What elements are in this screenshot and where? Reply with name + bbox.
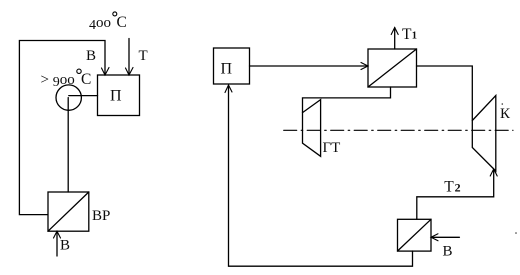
svg-text:> 9oo: > 9oo [41, 72, 75, 90]
heat exchanger box HX1 [368, 49, 417, 87]
svg-text:2: 2 [455, 181, 461, 195]
svg-text:В: В [86, 48, 96, 64]
svg-text:ВР: ВР [92, 208, 110, 224]
arrowhead into compressor bottom [490, 169, 497, 176]
wire P to heat exchanger T1 [250, 65, 367, 67]
wire HX2 top to compressor intake [417, 171, 494, 220]
wire T feed into preheater top [128, 39, 130, 75]
arrowhead into HX1 left side [361, 63, 368, 70]
diagonal of HX2 [398, 219, 432, 251]
wire HX1 to compressor K [417, 66, 473, 121]
wire B feed into HX2 right side [432, 236, 459, 238]
wire combustor to preheater P [69, 95, 98, 97]
svg-text:С: С [81, 71, 91, 88]
label 400 C [89, 14, 127, 33]
gas turbine GT trapezoid [303, 100, 321, 157]
air heater box VR [48, 192, 89, 231]
arrowhead into preheater P top (B feed) [102, 68, 110, 76]
arrowhead return into P bottom [225, 85, 232, 93]
preheater box P (right) [214, 48, 250, 84]
diagonal of HX1 [368, 49, 417, 87]
svg-text:П: П [110, 87, 122, 104]
wire exhaust return loop HX2 to P [229, 86, 413, 266]
arrowhead B into VR [54, 231, 61, 238]
svg-text:К: К [500, 106, 511, 122]
heat exchanger box HX2 [398, 219, 432, 251]
arrowhead T1 up [391, 28, 398, 35]
wire T1 outlet up [394, 28, 396, 49]
arrowhead B into HX2 [431, 234, 438, 241]
svg-text:ГТ: ГТ [323, 140, 341, 156]
svg-text:1: 1 [412, 31, 417, 42]
combustion chamber circle [56, 85, 81, 110]
svg-text:С: С [117, 14, 127, 31]
wire outer loop from preheater top to VR [19, 41, 105, 215]
svg-text:Т: Т [402, 26, 412, 43]
svg-text:Т: Т [139, 48, 148, 64]
svg-text:В: В [60, 238, 70, 254]
svg-text:Т: Т [444, 178, 454, 195]
svg-text:В: В [443, 244, 453, 260]
label >900 C [41, 71, 92, 90]
degree symbol of 400 C [113, 12, 117, 16]
compressor K trapezoid [472, 96, 496, 172]
degree symbol of 900 C [77, 69, 81, 73]
wire HX1 bottom to gas turbine GT [303, 87, 391, 113]
diagonal of VR [48, 192, 89, 231]
svg-text:4oo: 4oo [89, 15, 111, 33]
node T2 label [444, 178, 460, 195]
wire B feed into VR bottom [56, 232, 58, 256]
svg-text:П: П [221, 61, 233, 78]
arrowhead T feed [126, 68, 134, 76]
preheater box P (left) [98, 75, 140, 116]
wire combustor down to VR [67, 98, 69, 192]
shaft axis dash-dot line [284, 129, 513, 131]
node T1 label [402, 26, 417, 43]
stray dot [515, 232, 517, 234]
